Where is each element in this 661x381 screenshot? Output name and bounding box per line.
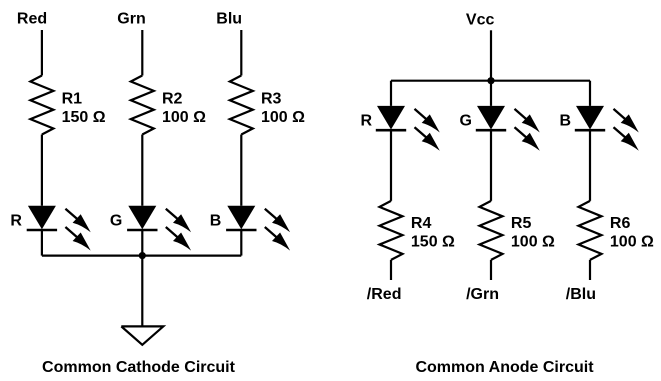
svg-text:G: G <box>460 112 472 129</box>
svg-text:Common Anode Circuit: Common Anode Circuit <box>415 359 594 376</box>
svg-text:Blu: Blu <box>216 11 242 28</box>
svg-text:100 Ω: 100 Ω <box>610 233 654 250</box>
svg-text:R5: R5 <box>511 215 532 232</box>
svg-text:100 Ω: 100 Ω <box>162 109 206 126</box>
svg-text:G: G <box>110 212 122 229</box>
svg-text:R2: R2 <box>162 91 183 108</box>
svg-text:R: R <box>10 212 22 229</box>
svg-text:/Grn: /Grn <box>466 286 499 303</box>
svg-text:100 Ω: 100 Ω <box>261 109 305 126</box>
svg-text:B: B <box>559 112 571 129</box>
svg-text:150 Ω: 150 Ω <box>62 109 106 126</box>
svg-text:R3: R3 <box>261 91 282 108</box>
svg-text:/Red: /Red <box>367 286 402 303</box>
svg-text:R1: R1 <box>62 91 83 108</box>
svg-text:Red: Red <box>17 11 47 28</box>
svg-text:R: R <box>360 112 372 129</box>
svg-text:Grn: Grn <box>117 11 145 28</box>
svg-text:R4: R4 <box>411 215 432 232</box>
svg-text:150 Ω: 150 Ω <box>411 233 455 250</box>
svg-text:/Blu: /Blu <box>566 286 596 303</box>
svg-text:Common Cathode Circuit: Common Cathode Circuit <box>42 359 236 376</box>
svg-text:B: B <box>210 212 222 229</box>
svg-text:Vcc: Vcc <box>466 11 495 28</box>
svg-text:100 Ω: 100 Ω <box>511 233 555 250</box>
svg-text:R6: R6 <box>610 215 631 232</box>
